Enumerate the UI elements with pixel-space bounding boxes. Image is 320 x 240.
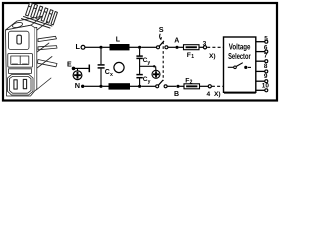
- wire E: [74, 67, 89, 69]
- svg-text:y: y: [148, 79, 151, 85]
- switch bottom lever: [158, 80, 163, 85]
- terminal E dot: [72, 67, 76, 71]
- svg-text:2: 2: [190, 79, 193, 85]
- svg-text:x: x: [110, 72, 113, 78]
- svg-text:6: 6: [264, 44, 268, 51]
- dashed wire 3 to selector: [207, 46, 223, 48]
- border frame: [3, 3, 277, 101]
- svg-text:10: 10: [262, 82, 270, 89]
- wire node to choke: [103, 46, 110, 48]
- terminal 4 circle: [208, 85, 211, 88]
- fuse F2: [184, 84, 200, 89]
- wire switch to node A: [168, 46, 176, 48]
- node B: [176, 85, 179, 88]
- svg-text:N: N: [75, 81, 80, 90]
- node Cy bottom: [138, 85, 141, 88]
- switch S lever: [159, 41, 164, 46]
- node Cy top: [138, 46, 141, 49]
- wire node to switch: [141, 46, 156, 48]
- module top oval: [12, 22, 23, 29]
- svg-text:1: 1: [191, 54, 194, 60]
- selector stub 5: [256, 41, 265, 43]
- inductor L bottom winding: [109, 83, 131, 89]
- module side tab 1: [38, 36, 57, 41]
- wire A to fuse F1: [179, 46, 184, 48]
- module side tab 3: [38, 60, 58, 67]
- svg-text:E: E: [67, 62, 72, 69]
- discharge circle: [114, 62, 124, 72]
- svg-text:5: 5: [264, 35, 268, 42]
- capacitor Cy upper: [139, 49, 141, 56]
- selector stub 10: [256, 89, 265, 91]
- drawer lip: [9, 69, 32, 74]
- terminal N dot: [81, 85, 84, 88]
- fuse F1: [184, 45, 200, 50]
- capacitor Cy lower: [136, 74, 142, 76]
- module pin tabs: [22, 3, 58, 29]
- selector stub 7: [256, 60, 265, 62]
- module side tab 2: [38, 46, 57, 50]
- schematic: [67, 25, 269, 98]
- node Cx top: [99, 46, 102, 49]
- switch S left contact: [157, 46, 160, 49]
- svg-text:4: 4: [207, 91, 211, 98]
- mechanical link dashed: [162, 42, 164, 81]
- IEC inlet pin L: [14, 80, 17, 89]
- dashed wire 4 to selector: [212, 85, 224, 87]
- wire switch to node B: [167, 85, 176, 87]
- wire L to node: [85, 46, 100, 48]
- svg-text:3: 3: [203, 40, 207, 47]
- IEC inlet outline: [8, 75, 34, 95]
- selector switch: [228, 66, 234, 68]
- inductor L top winding: [110, 44, 130, 50]
- wire choke to node: [130, 46, 139, 48]
- wire F1 to terminal 3: [199, 46, 203, 48]
- svg-text:L: L: [116, 37, 121, 44]
- wire N to node: [84, 85, 99, 87]
- module side edge lines: [37, 22, 48, 31]
- earth tap wire: [140, 65, 155, 67]
- IEC inlet pin N: [23, 79, 26, 88]
- module switch slot: [17, 35, 22, 44]
- svg-text:X): X): [209, 53, 216, 60]
- selector stub 8: [256, 70, 265, 72]
- wire B to fuse F2: [180, 85, 184, 87]
- terminal 3 circle: [203, 46, 206, 49]
- wire node to switch bottom: [141, 85, 156, 87]
- voltage selector box: [224, 37, 256, 92]
- module front face: [6, 25, 36, 96]
- svg-text:B: B: [174, 91, 179, 98]
- svg-text:Selector: Selector: [228, 52, 251, 61]
- switch S right contact: [165, 46, 168, 49]
- node Cx bottom: [99, 85, 102, 88]
- terminal L circle: [81, 45, 85, 49]
- module fuse drawer: [8, 54, 33, 68]
- terminal E end bar: [88, 65, 90, 73]
- module switch window: [9, 31, 30, 49]
- power entry module illustration: [6, 3, 58, 97]
- svg-text:X): X): [214, 91, 221, 98]
- arrow S to switch: [160, 34, 161, 39]
- svg-text:Voltage: Voltage: [229, 43, 251, 52]
- svg-text:S: S: [159, 25, 164, 34]
- selector stub 9: [256, 80, 265, 82]
- svg-text:9: 9: [264, 73, 268, 80]
- svg-text:y: y: [147, 60, 150, 66]
- svg-text:A: A: [174, 37, 179, 44]
- node A: [175, 46, 178, 49]
- svg-text:7: 7: [264, 53, 268, 60]
- earth symbol mid: [152, 70, 160, 78]
- wire F2 to terminal 4: [200, 85, 209, 87]
- wire node to choke bottom: [103, 85, 109, 87]
- svg-text:8: 8: [264, 63, 268, 70]
- selector stub 6: [256, 51, 265, 53]
- switch bottom right contact: [164, 85, 167, 88]
- svg-text:L: L: [76, 42, 81, 51]
- fuse holder cells: [11, 56, 29, 64]
- module top face: [6, 16, 43, 30]
- wire choke to node Cy bottom: [130, 85, 138, 87]
- switch bottom left contact: [156, 85, 159, 88]
- capacitor Cx: [100, 49, 102, 64]
- earth symbol E: [77, 68, 79, 71]
